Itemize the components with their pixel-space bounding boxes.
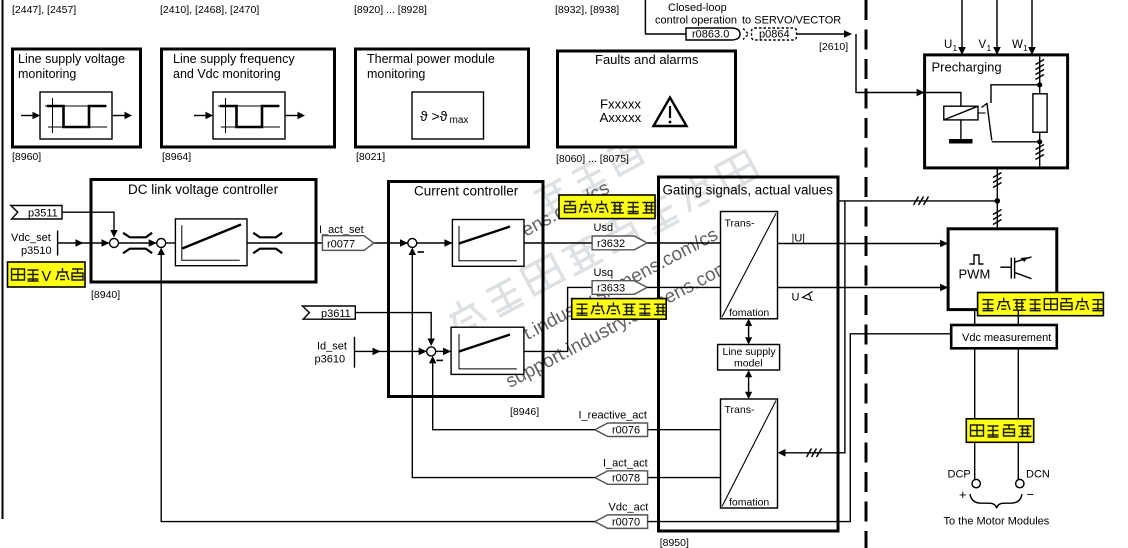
svg-text:[8960]: [8960] xyxy=(12,151,41,163)
output arrow box 8960 xyxy=(112,112,132,119)
parameter input p3611 xyxy=(302,306,355,320)
svg-text:p3610: p3610 xyxy=(315,354,346,366)
DC link voltage controller box [8940] xyxy=(91,180,316,283)
wire bottom contact xyxy=(992,141,1040,143)
input arrow box 8960 xyxy=(21,112,40,119)
yellow label: reactive component setting xyxy=(572,299,667,320)
warning triangle xyxy=(654,98,687,127)
connector output r0070 xyxy=(595,515,648,529)
wire Id_set to summing point D xyxy=(355,348,427,356)
PI current controller block 2 xyxy=(451,327,524,374)
wire r3633 to transformation xyxy=(647,286,720,288)
wire from 2610 line down to precharging xyxy=(856,34,925,96)
svg-text:Trans-: Trans- xyxy=(725,404,755,416)
svg-text:Vdc_act: Vdc_act xyxy=(609,502,649,514)
precharging resistor xyxy=(1033,94,1047,132)
svg-text:Usd: Usd xyxy=(594,222,614,234)
dashed connector chevron xyxy=(743,29,749,40)
svg-text:Line supply: Line supply xyxy=(723,346,777,358)
svg-text:1: 1 xyxy=(987,43,992,53)
watermark xyxy=(413,94,759,402)
transformation block 1 xyxy=(721,212,778,320)
wire B to PI block xyxy=(166,242,176,244)
double arrow trans1 to line supply model xyxy=(745,319,752,345)
wire r0076 to trans2 xyxy=(648,429,721,431)
parameter input p3511 xyxy=(11,206,62,220)
svg-text:U: U xyxy=(944,39,952,51)
svg-text:[8060] ... [8075]: [8060] ... [8075] xyxy=(556,153,629,165)
svg-text:control operation: control operation xyxy=(655,15,737,27)
box: Line supply voltage monitoring [8960] xyxy=(13,49,141,147)
switch contact blade xyxy=(978,103,992,140)
svg-text:I_act_set: I_act_set xyxy=(319,224,364,236)
svg-text:V: V xyxy=(979,39,987,51)
svg-text:[2610]: [2610] xyxy=(819,41,848,53)
svg-text:r0863.0: r0863.0 xyxy=(692,29,729,41)
svg-text:DC link voltage controller: DC link voltage controller xyxy=(128,182,279,197)
limiter symbol 2 xyxy=(253,233,282,253)
wire into relay coil xyxy=(926,93,961,107)
svg-text:Trans-: Trans- xyxy=(725,218,755,230)
label U1 xyxy=(944,39,958,53)
feedback tap to transformation 2 xyxy=(778,201,845,457)
svg-text:Precharging: Precharging xyxy=(932,60,1002,75)
theta comparison block xyxy=(412,92,484,139)
arrow to [2610] xyxy=(797,30,853,38)
underbrace xyxy=(970,494,1022,508)
limiter symbol 1 xyxy=(123,233,152,253)
wire Usq output xyxy=(524,287,592,351)
svg-text:Closed-loop: Closed-loop xyxy=(668,2,727,14)
wire A to B with limiter xyxy=(119,239,157,247)
hatch marks top of resistor branch xyxy=(1036,60,1045,80)
svg-text:Vdc_set: Vdc_set xyxy=(11,232,51,244)
terminal DCN xyxy=(1016,469,1050,503)
feedback wire I_act_act xyxy=(409,248,595,478)
Current controller box [8946] xyxy=(389,182,544,397)
Gating signals box [8950] xyxy=(659,177,839,531)
summing point D xyxy=(427,347,443,361)
svg-text:W: W xyxy=(1012,39,1023,51)
svg-text:r3632: r3632 xyxy=(597,238,625,250)
wire to closed-loop r0863 xyxy=(645,0,686,34)
double arrow line supply model to trans2 xyxy=(745,370,752,399)
transformation block 2 xyxy=(721,399,778,509)
svg-text:Id_set: Id_set xyxy=(317,341,347,353)
ground under relay coil xyxy=(949,120,973,144)
waveform symbol in box 8964 xyxy=(213,92,285,139)
svg-text:and Vdc monitoring: and Vdc monitoring xyxy=(173,67,281,81)
svg-text:[8932], [8938]: [8932], [8938] xyxy=(555,4,619,16)
svg-text:+: + xyxy=(959,487,967,502)
output wire of DC link controller xyxy=(247,242,381,244)
summing point B xyxy=(157,239,166,248)
svg-text:ϑ >ϑ: ϑ >ϑ xyxy=(420,108,448,124)
wire top contact xyxy=(991,85,1040,103)
svg-text:monitoring: monitoring xyxy=(367,67,425,81)
yellow label: DC bus output xyxy=(966,419,1033,443)
svg-text:[8920] ... [8928]: [8920] ... [8928] xyxy=(354,4,427,16)
waveform symbol in box 8960 xyxy=(40,92,112,139)
svg-text:V: V xyxy=(42,269,52,285)
svg-text:fomation: fomation xyxy=(729,307,769,319)
svg-text:Line supply voltage: Line supply voltage xyxy=(18,52,125,66)
text Closed-loop control operation xyxy=(655,2,737,27)
Line supply model box xyxy=(718,345,780,371)
box: Faults and alarms [8060]...[8075] xyxy=(558,51,736,147)
yellow label: active component setting xyxy=(559,195,656,219)
label W1 xyxy=(1012,39,1028,53)
Vdc measurement box xyxy=(951,325,1057,348)
svg-text:1: 1 xyxy=(953,43,958,53)
svg-text:Thermal power module: Thermal power module xyxy=(367,52,495,66)
svg-text:p3511: p3511 xyxy=(28,208,58,220)
PWM box xyxy=(948,229,1057,310)
svg-text:[8940]: [8940] xyxy=(91,289,120,301)
DC bus wires down xyxy=(975,348,1019,479)
svg-text:to SERVO/VECTOR: to SERVO/VECTOR xyxy=(742,15,841,27)
wire D to PI2 xyxy=(436,348,451,356)
svg-text:DCN: DCN xyxy=(1026,469,1050,481)
svg-text:monitoring: monitoring xyxy=(18,67,76,81)
svg-text:r3633: r3633 xyxy=(597,283,625,295)
phase line V1 xyxy=(993,0,1001,55)
summing point C xyxy=(408,239,424,253)
feedback wire I_reactive_act xyxy=(429,356,595,430)
output arrow box 8964 xyxy=(285,112,305,119)
wire gating to precharge junction with hatches xyxy=(838,197,997,206)
box: Thermal power module monitoring [8021] xyxy=(356,49,529,147)
svg-text:[8946]: [8946] xyxy=(510,406,539,418)
resistor branch wire and junctions xyxy=(1037,57,1042,167)
terminal DCP xyxy=(948,469,981,503)
svg-text:fomation: fomation xyxy=(729,497,769,509)
svg-text:|U|: |U| xyxy=(792,233,806,245)
summing point A xyxy=(110,239,119,248)
svg-text:I_act_act: I_act_act xyxy=(603,458,648,470)
svg-text:Faults and alarms: Faults and alarms xyxy=(595,52,699,67)
wire C to PI1 xyxy=(417,239,453,247)
wire p3511 to summing point xyxy=(62,212,118,237)
relay coil K1 xyxy=(944,106,978,120)
wire precharging to PWM with junction xyxy=(993,168,1002,229)
phase line U1 xyxy=(958,0,966,55)
svg-text:Current controller: Current controller xyxy=(414,184,519,199)
wire p3611 to summing point D xyxy=(355,313,435,346)
svg-text:Usq: Usq xyxy=(594,267,614,279)
yellow label: DC bus V setpoint xyxy=(8,262,86,287)
label Vdc_set p3510 xyxy=(11,231,58,258)
wire Vdc_set to summing point xyxy=(58,239,110,247)
svg-text:[8950]: [8950] xyxy=(660,537,689,548)
PI controller block (DC link) xyxy=(175,219,247,266)
svg-text:To the Motor Modules: To the Motor Modules xyxy=(944,516,1050,528)
phase line W1 xyxy=(1028,0,1036,55)
pulse icon xyxy=(970,255,984,264)
binector output r0863.0 xyxy=(686,28,740,41)
arrow into current controller summing xyxy=(381,239,408,247)
Precharging box xyxy=(925,55,1068,168)
connector output r3632 xyxy=(592,236,647,250)
PI current controller block 1 xyxy=(452,220,524,267)
svg-text:[8021]: [8021] xyxy=(356,151,385,163)
wires PWM to Vdc measurement xyxy=(975,310,1019,325)
svg-text:r0078: r0078 xyxy=(612,473,640,485)
svg-text:[8964]: [8964] xyxy=(162,151,191,163)
svg-text:−: − xyxy=(1027,487,1035,502)
svg-text:Axxxxx: Axxxxx xyxy=(600,110,642,125)
connector output r0078 xyxy=(595,471,648,485)
svg-text:1: 1 xyxy=(1023,43,1028,53)
left page border xyxy=(2,0,4,519)
label U angle xyxy=(792,292,813,304)
svg-text:[2447], [2457]: [2447], [2457] xyxy=(12,4,76,16)
label Id_set p3610 xyxy=(315,337,355,368)
connector output r3633 xyxy=(592,281,647,295)
wire Usd output xyxy=(524,242,721,244)
svg-text:r0070: r0070 xyxy=(612,517,640,529)
label V1 xyxy=(979,39,992,53)
svg-text:[2410], [2468], [2470]: [2410], [2468], [2470] xyxy=(160,4,259,16)
connector output r0076 xyxy=(595,423,648,437)
svg-text:r0076: r0076 xyxy=(612,425,640,437)
IGBT icon xyxy=(1000,257,1031,279)
wire U angle to PWM xyxy=(778,284,949,292)
svg-text:PWM: PWM xyxy=(959,267,991,282)
svg-text:Vdc measurement: Vdc measurement xyxy=(962,332,1051,344)
wire |U| to PWM xyxy=(778,240,949,248)
box: Line supply frequency and Vdc monitoring [8964] xyxy=(162,49,335,147)
svg-text:Gating signals, actual values: Gating signals, actual values xyxy=(663,183,834,198)
hatch marks bottom of resistor branch xyxy=(1036,145,1045,160)
svg-text:max: max xyxy=(450,115,469,126)
svg-text:U: U xyxy=(792,292,800,304)
feedback wire Vdc_act xyxy=(158,248,595,522)
svg-text:Line supply frequency: Line supply frequency xyxy=(173,52,295,66)
wire r0078 to trans2 xyxy=(648,477,721,479)
svg-text:model: model xyxy=(734,358,763,370)
svg-text:I_reactive_act: I_reactive_act xyxy=(579,410,647,422)
svg-text:p3611: p3611 xyxy=(321,308,351,320)
dashed separator line xyxy=(865,0,868,548)
svg-text:DCP: DCP xyxy=(948,469,971,481)
wire Vdc measurement to r0070 xyxy=(648,334,952,522)
input arrow box 8964 xyxy=(194,112,213,119)
parameter p0864 dashed box xyxy=(752,28,797,41)
connector output r0077 xyxy=(322,236,373,251)
svg-text:p0864: p0864 xyxy=(759,29,790,41)
yellow label: line rectifier feedback unit xyxy=(978,293,1104,316)
svg-text:p3510: p3510 xyxy=(21,245,52,257)
svg-text:r0077: r0077 xyxy=(327,239,355,251)
